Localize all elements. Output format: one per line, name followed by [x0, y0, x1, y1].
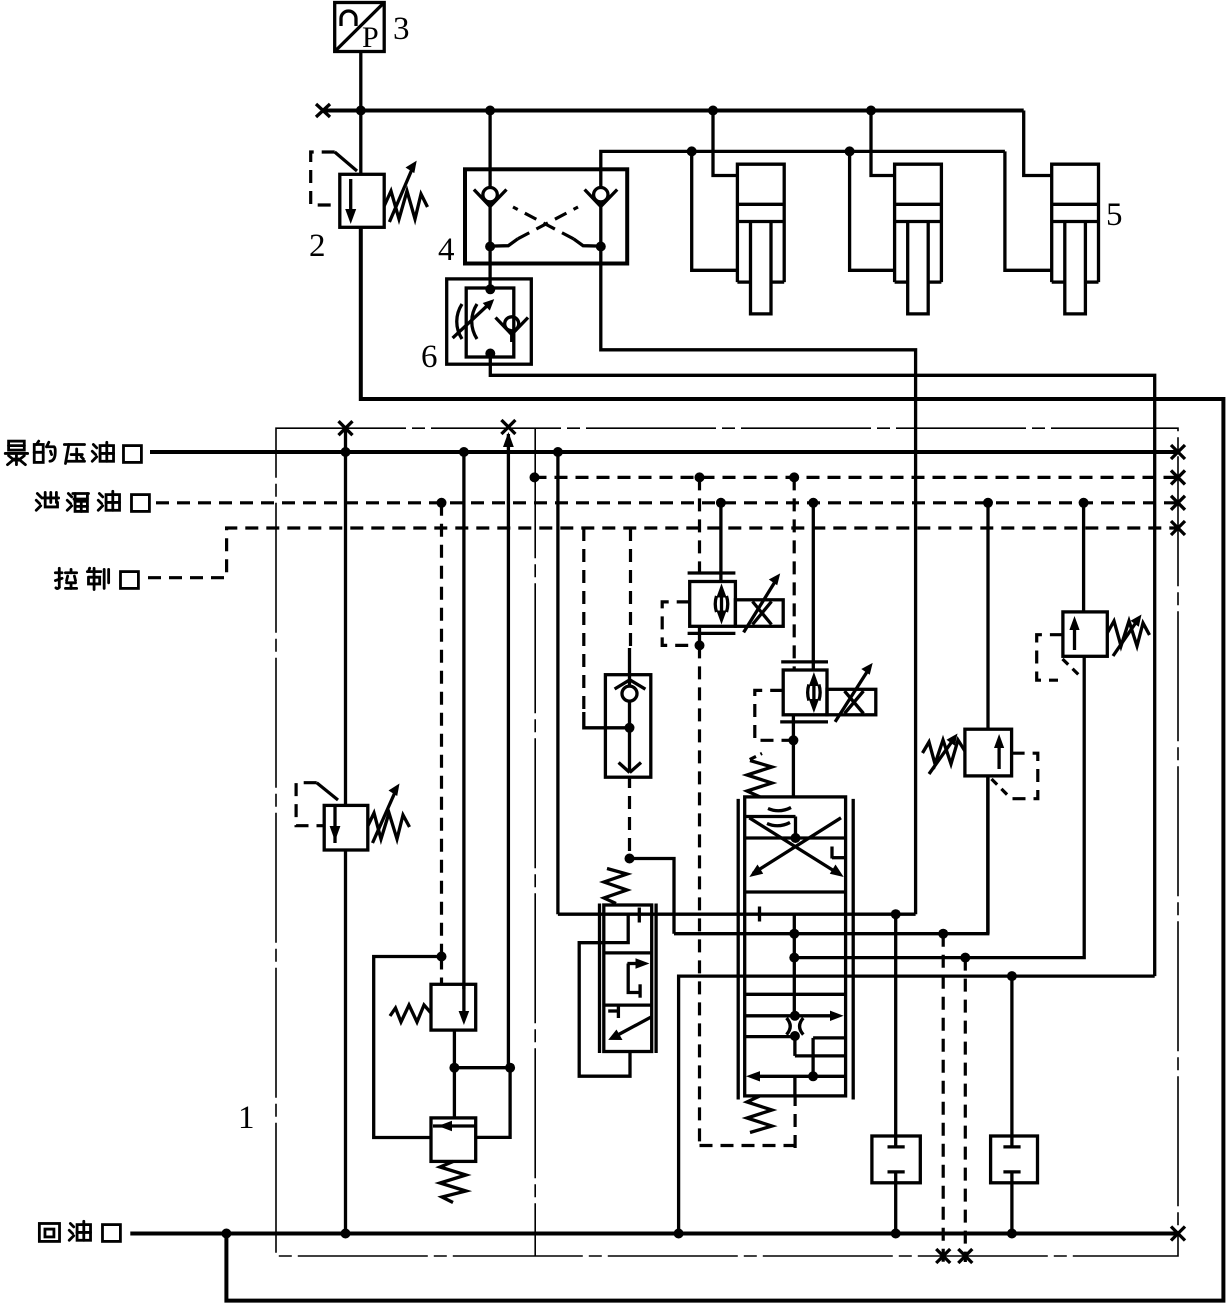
wire: relief branch through block — [344, 428, 347, 805]
main valve meter-in arrow — [745, 1011, 844, 1021]
damper 1 — [872, 1136, 920, 1183]
pilot line V3 — [992, 753, 1038, 799]
node: pump/LS valve — [553, 447, 563, 457]
node: drain/valveA pilot — [695, 472, 705, 482]
valve A metering arrow — [715, 583, 728, 624]
wire: sense to V2 right port — [476, 1068, 510, 1138]
arrow up on unload branch — [503, 432, 514, 447]
port relief valve V4 — [1063, 612, 1150, 656]
wire: pump branch to LS compensator — [556, 452, 559, 914]
pilot line V4 — [1037, 635, 1082, 681]
main valve mid separator — [745, 890, 846, 893]
tank return loop — [226, 227, 1223, 1300]
node: valve B bottom — [788, 735, 798, 745]
port X: control right edge — [1171, 521, 1185, 535]
node: bus/transducer — [356, 106, 366, 116]
check ball right of 4 — [585, 188, 618, 247]
wire: valve B to main valve — [792, 740, 795, 797]
pilot drain A down — [698, 645, 701, 1145]
valve B closed position X — [845, 691, 864, 714]
wire: transducer to main bus — [359, 52, 362, 111]
port X: drain A bottom — [936, 1249, 950, 1263]
wire: relief to tank bus — [344, 850, 347, 1234]
work port bus B — [794, 656, 1084, 957]
svg-text:1: 1 — [238, 1100, 255, 1136]
node: return/damper2 — [1007, 1229, 1017, 1239]
valve B pilot box — [750, 690, 794, 759]
node: leak/V3 — [983, 498, 993, 508]
main valve upper spring — [747, 761, 772, 797]
cylinder 5a — [737, 164, 784, 314]
node: valve6 bottom — [485, 349, 495, 359]
node: line to damper1 — [891, 909, 901, 919]
compensator valve A body — [690, 582, 784, 627]
drain line upper — [534, 476, 1179, 479]
svg-text:6: 6 — [421, 339, 438, 375]
tick: blocked port LCV — [638, 908, 641, 923]
port relief valve V3 — [923, 729, 1012, 776]
pilot drain to main valve bottom — [700, 1096, 796, 1148]
unload valve V1 — [390, 984, 476, 1030]
main valve return arrow — [746, 1071, 846, 1081]
compensator valve B body — [783, 670, 876, 715]
node: busB start — [789, 953, 799, 963]
wire: leak to valve A right port — [719, 503, 722, 582]
LCV feedback loop — [579, 943, 630, 1076]
bypass loop around V1 — [374, 957, 442, 1138]
drain line B (dashed) — [964, 958, 967, 1262]
leakage line — [156, 501, 1178, 504]
svg-text:3: 3 — [393, 11, 410, 47]
valve 6 inner box — [466, 288, 514, 357]
block relief valve — [324, 784, 409, 851]
node: leak branch / V1 bypass — [437, 952, 447, 962]
pump pressure line — [150, 450, 1178, 454]
wire: cap feed cyl1 — [713, 111, 737, 176]
unload sense branch — [507, 434, 510, 1068]
label: return oil port — [39, 1221, 120, 1241]
port X: drain B bottom — [958, 1249, 972, 1263]
wire: leak to V3 — [986, 503, 989, 729]
wire: cap feed cyl2 — [871, 111, 895, 176]
svg-text:5: 5 — [1106, 197, 1123, 233]
pilot line of block relief — [296, 783, 338, 826]
work port bus A — [674, 776, 988, 934]
main valve internal LS line — [793, 914, 796, 1016]
main supply bus — [323, 109, 1024, 113]
pilot line of valve 2 — [311, 152, 357, 205]
node: V1 outlet — [449, 1063, 459, 1073]
LCV middle arrow — [627, 958, 649, 997]
wire: damper1 feed — [894, 914, 897, 1148]
wire: rod feed cyl2 — [850, 151, 895, 270]
port X: unload branch at block top — [501, 420, 515, 434]
svg-text:P: P — [362, 21, 379, 54]
wire: damper1 to tank — [894, 1172, 897, 1234]
pilot check valve CV — [605, 675, 650, 778]
cylinder 5c — [1052, 164, 1099, 314]
LS compensator inlet line — [558, 913, 916, 916]
tank return port line — [130, 1232, 1178, 1236]
node: leak/V4 — [1079, 498, 1089, 508]
crossed pilot lines inside 4 — [490, 207, 601, 246]
wire: rod feed cyl1 — [692, 151, 738, 270]
node: CV center — [625, 723, 635, 733]
block divider — [534, 428, 536, 1256]
svg-text:2: 2 — [309, 228, 326, 264]
node: return/relief — [341, 1229, 351, 1239]
LCV spring — [604, 869, 627, 904]
main valve rails — [738, 799, 853, 1100]
valve A adjust arrow — [744, 573, 781, 632]
tank bus inside block — [679, 976, 1155, 1233]
tick: blocked port main valve — [758, 907, 761, 922]
node: metering bottom — [790, 1031, 800, 1041]
label: control port — [55, 568, 138, 589]
throttle inside 6 — [453, 304, 489, 339]
wire: CV outlet to bus — [630, 859, 675, 934]
port X: leak right edge — [1171, 496, 1185, 510]
wire: valve4 right ball to cylinder bus — [601, 151, 1005, 188]
node: busB/drain2 — [960, 953, 970, 963]
node: leak/left branch — [437, 498, 447, 508]
main valve lower spring — [747, 1096, 772, 1133]
valve A pilot box — [662, 602, 699, 646]
control branch to CV top — [629, 528, 632, 650]
node: valve4 right outlet — [596, 242, 606, 252]
main valve internal passages — [745, 1036, 846, 1076]
wire: into CV — [584, 712, 630, 728]
node: return passage — [808, 1071, 818, 1081]
node: bus/cyl1 — [708, 106, 718, 116]
node: pump/reducer — [459, 447, 469, 457]
port X: drain upper right edge — [1171, 470, 1185, 484]
pilot line CV to LCV spring — [628, 777, 631, 858]
valve A port bars — [688, 573, 736, 633]
node: metering top — [790, 1011, 800, 1021]
control line — [148, 528, 1178, 578]
valve A bottom stub — [698, 626, 701, 645]
wire: cap feed cyl3 — [1024, 111, 1052, 176]
node: bus/valve4 — [485, 106, 495, 116]
node: busA/main valve — [789, 929, 799, 939]
wire: pump branch to V1 — [462, 452, 465, 989]
wire: V1 bottom to V2 — [453, 1030, 456, 1118]
node: return/outer loop — [221, 1229, 231, 1239]
shuttle block 4 — [465, 169, 627, 263]
node: rod bus / cyl2 — [845, 146, 855, 156]
wire: control stub into CV — [628, 648, 631, 675]
node: pump/relief — [341, 447, 351, 457]
relief valve 2 — [340, 111, 428, 228]
wire: leak to valve B right port — [812, 503, 815, 670]
wire: damper2 to tank — [1010, 1172, 1013, 1234]
leak branch down (dashed) — [440, 503, 443, 957]
throttle-check valve 6 outer box — [447, 279, 532, 364]
label: pump pressure port — [5, 441, 141, 465]
damper 2 — [991, 1136, 1038, 1183]
valve B adjust arrow — [835, 663, 873, 722]
node: return/tank bus — [674, 1229, 684, 1239]
main valve bottom port stub — [793, 1076, 796, 1096]
main valve lower separator — [745, 993, 846, 996]
node: CV outlet — [625, 854, 635, 864]
pressure transducer 3 — [335, 3, 385, 55]
wire: V3 to work bus A — [986, 776, 989, 934]
manifold block 1 border — [276, 428, 1178, 1256]
node: rod bus / cyl1 — [687, 146, 697, 156]
cylinder 5b — [895, 164, 942, 314]
LCV top section passage — [604, 914, 628, 942]
node: valve4 left outlet — [485, 242, 495, 252]
leak branch stub to V1 — [440, 957, 443, 985]
valve B port bars — [780, 662, 828, 722]
main valve blocked port mark — [832, 847, 846, 859]
wire: drain to valve A left port — [698, 477, 701, 581]
main valve top section — [745, 808, 846, 874]
node: tank bus/damper2 — [1007, 971, 1017, 981]
node: valve A bottom — [695, 640, 705, 650]
LCV bottom section — [608, 1004, 652, 1040]
wire: drain to valve B left port — [793, 477, 796, 670]
node: valve6 top — [485, 284, 495, 294]
wire: valve4 to valve6 — [488, 247, 491, 290]
label: leakage port — [36, 491, 149, 511]
node: drain/valveB pilot — [789, 472, 799, 482]
cylinder rod-side bus — [1005, 151, 1052, 270]
node: sense branch — [505, 1063, 515, 1073]
port X at left of main bus — [316, 104, 330, 117]
wire: valve4 right outlet down and right — [601, 247, 916, 915]
node: return/damper1 — [891, 1229, 901, 1239]
node: busA/drain1 — [938, 929, 948, 939]
LCV body — [604, 905, 652, 1052]
port X: return right edge — [1171, 1227, 1185, 1241]
wire: damper2 feed — [1010, 976, 1013, 1148]
port X: relief branch at block top — [339, 421, 353, 435]
main valve body — [745, 797, 846, 1096]
drain line A (dashed) — [942, 934, 945, 1262]
control branch to CV side — [582, 528, 585, 714]
valve B metering arrow — [808, 672, 821, 713]
wire: leak to V4 — [1082, 503, 1085, 612]
sequence valve V2 — [431, 1118, 476, 1203]
wire: V1 outlet to sense branch — [454, 1066, 510, 1069]
wire: valve6 outlet going right — [490, 354, 1154, 977]
check ball inside 6 — [496, 317, 529, 342]
valve A closed position X — [753, 602, 772, 625]
check ball left of 4 — [474, 111, 507, 247]
metering orifice — [787, 1018, 804, 1035]
svg-text:4: 4 — [438, 232, 455, 268]
node: bus/cyl2 — [866, 106, 876, 116]
node: leak/valveA — [716, 498, 726, 508]
node: leak/valveB — [808, 498, 818, 508]
valve B bottom stub — [792, 715, 795, 741]
port X: pump at right edge — [1171, 445, 1185, 459]
node: drain start — [530, 472, 540, 482]
LS compensator valve LCV rails — [600, 904, 657, 1054]
